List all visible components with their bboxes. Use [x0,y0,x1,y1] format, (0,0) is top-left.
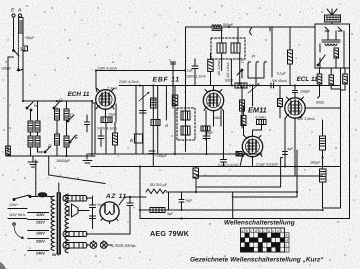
winding fil 3 [63,243,87,249]
BUSES [22,69,350,219]
svg-text:a: a [242,229,244,233]
SPEAKERBOX [271,9,350,88]
ECL11BLOCK [272,68,347,176]
dial lamp 1 [90,242,97,249]
wire transformer top [36,183,54,197]
coil L5 [35,136,40,147]
wire vert 232 [232,192,234,219]
svg-text:100pF: 100pF [300,90,311,94]
svg-text:84kΩ: 84kΩ [213,116,222,120]
svg-text:100pF: 100pF [1,67,12,71]
wire column x242 [241,86,243,129]
svg-text:A: A [164,123,168,128]
wire cathode down [285,118,295,176]
svg-text:c: c [250,229,252,233]
tube shield box [95,104,116,122]
wire choke [146,209,150,211]
capacitor C15 [90,216,96,219]
wire contacts down [248,72,264,86]
tube U3 EM11 [242,136,262,156]
junction [231,84,233,86]
svg-text:B: B [130,138,133,143]
resistor R6 [208,59,214,71]
switch in box [318,55,325,65]
wire column f [174,86,176,155]
capacitor C7 [98,130,104,147]
wire right rail b [349,68,351,219]
junction b+ [195,191,197,193]
resistor R7 [240,100,245,111]
capacitor C12 [203,131,210,154]
resistor R9 [288,50,293,64]
wire b+ [166,191,297,193]
svg-text:0,2MΩ: 0,2MΩ [256,116,267,120]
wire mains riser [35,160,37,168]
coil choke2 [320,169,327,182]
dial cord diagonal [49,156,105,184]
wire anode right [305,107,340,109]
transformer T2 [322,40,340,46]
winding fil 2 [63,232,87,237]
FILTER [146,167,297,239]
svg-text:0,1µF: 0,1µF [277,72,286,76]
resistor R1 left edge [6,146,11,155]
TABLEBLOCK [190,220,324,264]
wire 128V line [96,70,186,72]
coil L2 [28,121,33,132]
svg-text:50V 2,0mA: 50V 2,0mA [297,117,315,121]
svg-text:5000: 5000 [225,79,233,83]
resistor R13 [236,152,242,157]
jack J1 [250,28,252,35]
wire EM bottom [240,154,253,167]
coil L12 [151,120,160,126]
svg-text:P: P [252,54,255,59]
choke 5000 [150,208,165,213]
contact spring 3 [264,62,267,72]
svg-text:s: s [272,229,274,233]
resistor zigzag [146,189,166,194]
svg-text:220V: 220V [36,240,45,244]
wire bottom bus [6,155,95,157]
antenna coil L1 [19,18,23,34]
header glyphs [242,229,284,233]
svg-text:Gezeichnete Wellenschalterstel: Gezeichnete Wellenschalterstellung „Kurz… [190,257,324,264]
svg-text:10µF: 10µF [108,113,117,117]
BANDSWITCH [6,98,95,167]
IF coil pair 1 [217,43,226,53]
dial lamp 2 [100,242,107,249]
resistor R14 [317,74,322,84]
junction dots [22,100,24,102]
resistor R15 [343,74,348,84]
svg-text:T: T [286,248,289,252]
svg-text:100µF: 100µF [310,161,321,165]
svg-text:10000pF: 10000pF [56,159,71,163]
loudspeaker LS [327,9,337,15]
side column [285,233,290,252]
svg-text:g: g [268,229,270,233]
ground mid [83,154,92,163]
svg-text:210V 4,2mA: 210V 4,2mA [119,80,139,84]
resistor R12 [329,75,334,85]
bus y208 [140,208,341,210]
EBF11BLOCK [153,62,260,154]
svg-text:f: f [264,229,266,233]
resistor R8 in box [334,48,339,58]
svg-text:100V 1,2mA: 100V 1,2mA [186,75,206,79]
svg-text:C: C [241,59,245,64]
coil small [257,120,267,125]
capacitor C11 [171,62,176,64]
contact spring 2 [256,62,259,72]
wire [22,33,24,67]
wire right rail a [340,68,342,208]
contact f2 [338,27,342,31]
svg-text:A: A [17,8,22,14]
oscillator enclosure [186,27,316,108]
coil choke1 [320,136,326,150]
coil IF hatched [201,126,210,131]
TOPBOX [186,23,316,108]
transformer T1 primary [51,196,54,251]
bus y151 [88,153,262,155]
svg-text:800Ω: 800Ω [316,101,325,105]
svg-text:420-1,8mA: 420-1,8mA [217,60,221,76]
svg-text:Nr 7: Nr 7 [52,252,61,257]
svg-text:110V 50Hz: 110V 50Hz [9,213,26,217]
wire vert 168 [168,192,170,210]
tube U1 ECH11 [96,90,116,110]
filled cells row3 [245,242,249,247]
wire main down to bandswitch [22,67,24,101]
svg-text:ECH 11: ECH 11 [68,91,90,98]
coil L11 [151,98,157,108]
wire cathode down [95,122,106,154]
coil L6 [55,109,60,120]
svg-text:d: d [255,229,257,233]
output box [315,24,350,68]
coil L9 [64,136,69,147]
transformer T1 secondary [65,194,68,253]
wire coil column [322,120,324,208]
wire down x290 [289,27,291,50]
tube U4 ECL11 [285,98,305,118]
svg-text:e: e [259,229,261,233]
capacitor C14 [90,196,96,229]
tube U2 EBF11 [203,90,223,110]
switch table [241,228,285,252]
wire column e [165,86,167,121]
POWER [0,168,146,269]
svg-text:150V: 150V [36,232,45,236]
resistor R3 [113,133,118,145]
mains switch [14,195,29,199]
ground [28,156,38,167]
svg-text:220V~: 220V~ [9,203,19,207]
svg-text:240V 4,2mA: 240V 4,2mA [97,127,117,131]
LEFT-ANTENNA [1,8,35,151]
resistor 0,2M [241,116,246,126]
svg-text:M: M [286,238,289,242]
IF coil a [181,111,190,120]
filled cells row2 [241,238,245,243]
wire right pin [223,111,225,155]
junction [321,156,323,158]
svg-text:4µF: 4µF [287,147,294,151]
wire right [91,101,93,156]
svg-text:ECL 11: ECL 11 [297,76,319,83]
svg-text:+50µF: +50µF [97,203,107,207]
wire can verticals [173,62,186,152]
coil L10 [212,25,222,27]
switch S1 antenna [14,50,20,56]
variable capacitor arrow [139,92,149,101]
wire EM top [253,86,262,137]
wire column c [152,86,154,167]
wire verticals [31,101,67,121]
transformer core [58,193,61,254]
dashed IF can 2 [177,108,195,140]
taps [28,213,49,251]
wire column b [142,86,144,155]
vert x140 [139,167,141,219]
svg-text:110V: 110V [36,213,45,217]
coil cathode [101,117,112,123]
coil L3 [35,121,40,132]
capacitor C5 [85,115,90,132]
wire top bus [23,100,92,102]
capacitor C8 [140,111,147,114]
coil L8 [55,134,60,145]
capacitor C13 [221,154,227,167]
rectifier socket symbol [69,204,78,217]
wire [57,120,67,156]
filled cells row1 [241,233,285,252]
svg-text:0,1µF: 0,1µF [184,69,193,73]
svg-text:128V 4,2mA: 128V 4,2mA [97,67,117,71]
svg-text:420-1,8mA: 420-1,8mA [226,62,230,78]
wire AZ out [119,197,146,205]
IF coil b [181,126,190,135]
resistor R11 [278,99,283,107]
corner smudge [0,262,6,269]
svg-text:7,5mA: 7,5mA [107,87,118,91]
svg-text:p: p [276,229,279,233]
wire az bottom [90,241,111,245]
bus y197 [232,150,297,197]
wire [31,132,43,156]
svg-text:3µF: 3µF [167,212,174,216]
wire anode up [96,71,97,93]
capacitor C10 [192,59,198,86]
svg-text:h: h [246,229,248,233]
coil L4 [28,136,33,147]
ECH11BLOCK [68,67,341,167]
svg-text:240V: 240V [36,252,45,256]
svg-text:0,1µF 0,01mF: 0,1µF 0,01mF [218,163,239,167]
tube U5 AZ11 [100,202,119,221]
svg-text:Wellenschalterstellung: Wellenschalterstellung [224,220,295,227]
wire tube down [206,111,221,141]
svg-text:6µF: 6µF [186,199,193,203]
svg-text:K: K [286,234,289,238]
wire from coil down (dotted link) [17,33,19,67]
variable arrow [248,84,259,93]
svg-text:6,3V/0,3Amp.: 6,3V/0,3Amp. [111,243,136,248]
selector plug [13,223,16,226]
svg-text:2,2µF 0,01mF: 2,2µF 0,01mF [256,163,279,167]
contact f1 [325,27,329,31]
svg-text:5W 40mA: 5W 40mA [272,79,288,83]
wire column a [135,86,137,155]
RIGHTSIDE [310,68,350,219]
svg-text:EM11: EM11 [248,106,267,115]
svg-text:AEG 79WK: AEG 79WK [150,229,190,238]
svg-text:~60pF: ~60pF [24,36,35,40]
dashed IF can [211,38,245,59]
capacitor top [271,83,274,88]
wire in box [320,31,344,68]
bus y176 [196,175,323,177]
svg-text:E: E [11,8,15,14]
capacitor 4uF [283,152,288,167]
switch contact [237,70,242,78]
filled cells row4 [241,247,254,252]
contact spring 1 [248,62,251,72]
bus y164 [91,166,341,168]
fuse [38,193,47,197]
wires down from can [222,27,240,86]
EM11BLOCK [240,86,279,167]
svg-text:t: t [281,229,283,233]
wire E down [13,17,15,50]
winding fil 1 [63,196,87,202]
svg-text:132V: 132V [36,221,45,225]
bus y218 [140,218,350,220]
resistor R5 [172,95,177,106]
svg-text:+100µF: +100µF [155,154,167,158]
wire mains drop [35,168,37,196]
svg-text:L: L [286,243,288,247]
resistor R10 [193,168,199,178]
bus y187 [196,158,283,188]
node antenna junction [18,69,23,71]
svg-text:EBF 11: EBF 11 [153,77,180,84]
IF coil pair 2 [231,43,240,53]
trimmer box B [135,134,143,143]
svg-text:6Ω 310 µF: 6Ω 310 µF [150,183,168,187]
wire column d [157,86,159,155]
wire left branch down [8,57,14,150]
coil L7 [64,109,69,120]
svg-text:+: + [133,206,135,210]
